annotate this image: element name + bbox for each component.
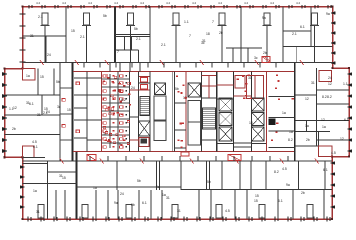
- elevator shaft E2: [155, 83, 166, 95]
- top band sub-room wall d: [310, 7, 312, 47]
- core red cells top right: [235, 76, 264, 99]
- left wing wall y134: [5, 134, 61, 136]
- column KB6 (bottom band): [259, 205, 265, 219]
- small cells corridor top strip: [110, 63, 140, 72]
- right wing wall y145: [295, 145, 333, 147]
- core top red wall: [73, 71, 294, 73]
- svg-text:2.1: 2.1: [38, 15, 43, 19]
- top band sub-wall mid2: [115, 49, 139, 51]
- right wing red room bottom: [319, 146, 333, 157]
- svg-text:3c: 3c: [103, 132, 107, 136]
- svg-text:12: 12: [13, 106, 17, 110]
- red symbol bottom corridor 1: [87, 155, 96, 161]
- svg-text:1a: 1a: [26, 74, 30, 78]
- dimension ticks upper-left wall: [20, 14, 26, 62]
- column KB3 (bottom band): [126, 205, 132, 219]
- svg-text:4.2: 4.2: [270, 1, 275, 5]
- svg-text:2b: 2b: [12, 127, 16, 131]
- svg-text:2b: 2b: [263, 51, 267, 55]
- column KB2 (bottom band): [82, 205, 88, 219]
- cell below E1: [139, 138, 149, 147]
- svg-text:4.5: 4.5: [225, 209, 230, 213]
- core wall x266: [266, 72, 268, 152]
- svg-text:2.1: 2.1: [161, 43, 166, 47]
- left wing partial vertical 2: [37, 69, 39, 96]
- bottom band upper partition V1: [116, 161, 118, 190]
- svg-text:31: 31: [30, 34, 34, 38]
- red hatch symbol top band: [262, 57, 270, 63]
- bottom band upper partition V4: [180, 161, 182, 190]
- svg-text:7: 7: [212, 20, 214, 24]
- wall below right bank: [252, 143, 267, 145]
- svg-text:2.1: 2.1: [292, 32, 297, 36]
- svg-text:5b: 5b: [175, 87, 179, 91]
- dimension arrows upper-right wall: [331, 11, 336, 65]
- svg-text:1a: 1a: [305, 124, 309, 128]
- left wing red room top: [23, 69, 36, 81]
- right wing wall y104: [316, 103, 349, 105]
- bottom band upper partition V12: [324, 161, 326, 190]
- svg-text:5b: 5b: [137, 179, 141, 183]
- top band sub-wall right2: [283, 46, 333, 48]
- bottom band thick wall: [76, 152, 78, 219]
- svg-text:15: 15: [255, 194, 259, 198]
- svg-text:15: 15: [67, 108, 71, 112]
- top band sub-room wall e: [232, 48, 234, 63]
- svg-text:2.1: 2.1: [80, 35, 85, 39]
- left wing partial vertical 3: [53, 69, 55, 96]
- core WC cell column C: [102, 72, 119, 152]
- svg-text:7: 7: [117, 50, 119, 54]
- svg-text:2.1: 2.1: [43, 111, 48, 115]
- svg-text:24: 24: [328, 76, 332, 80]
- svg-text:24: 24: [47, 53, 51, 57]
- svg-text:4.2: 4.2: [296, 1, 301, 5]
- core tall cell column B: [87, 72, 102, 152]
- svg-text:2b: 2b: [219, 31, 223, 35]
- bottom band upper partition V2: [156, 161, 158, 190]
- svg-text:4.2: 4.2: [192, 1, 197, 5]
- svg-text:1a: 1a: [33, 189, 37, 193]
- bottom band upper partition V6: [209, 161, 211, 190]
- column K6 (top band): [263, 13, 272, 63]
- svg-text:1a: 1a: [282, 111, 286, 115]
- core right wall: [294, 63, 296, 162]
- dark duct element: [269, 119, 276, 126]
- top band partition V1: [65, 7, 67, 63]
- column K1 (top band): [41, 13, 50, 63]
- bottom band upper partition V5: [206, 161, 208, 190]
- svg-text:6.1: 6.1: [323, 168, 328, 172]
- column K2 (top band): [82, 13, 91, 63]
- svg-text:31: 31: [59, 174, 63, 178]
- top band partition V5 (thick): [114, 7, 116, 63]
- svg-text:15: 15: [254, 199, 258, 203]
- staircase ST2: [203, 108, 216, 129]
- svg-text:4.2: 4.2: [140, 1, 145, 5]
- dimension ticks top wall: [29, 5, 331, 9]
- left wing wall y95: [5, 94, 61, 96]
- svg-text:1a: 1a: [289, 130, 293, 134]
- core wall x202: [201, 72, 203, 152]
- svg-text:18: 18: [206, 32, 210, 36]
- core bottom red wall: [73, 151, 294, 153]
- dimension ticks left wing wall: [2, 72, 8, 153]
- column K7 (top band): [310, 13, 319, 63]
- svg-text:24: 24: [120, 192, 124, 196]
- right wing vertical 4: [318, 132, 320, 147]
- bottom band upper partition V9: [250, 161, 252, 190]
- svg-text:9a: 9a: [326, 12, 330, 16]
- staircase ST1: [140, 97, 150, 116]
- column K5 (top band): [218, 13, 227, 63]
- svg-text:24: 24: [131, 86, 135, 90]
- wall below left bank: [217, 143, 234, 145]
- svg-text:6.1: 6.1: [142, 201, 147, 205]
- svg-text:4.2: 4.2: [218, 1, 223, 5]
- svg-text:5b: 5b: [103, 14, 107, 18]
- svg-text:1a: 1a: [322, 125, 326, 129]
- svg-text:8.2: 8.2: [274, 170, 279, 174]
- svg-text:4.5: 4.5: [331, 151, 336, 155]
- svg-text:4.5: 4.5: [282, 167, 287, 171]
- svg-text:3c: 3c: [57, 105, 61, 109]
- core cells above stair2: [202, 76, 217, 99]
- elevator shaft E9: [252, 127, 265, 141]
- bottom band upper partition V7: [221, 161, 223, 190]
- core wall above E4: [217, 72, 234, 152]
- top band sub-wall right: [283, 30, 311, 32]
- column K3 (top band): [126, 13, 135, 63]
- svg-text:12: 12: [321, 118, 325, 122]
- left wing partial vertical: [41, 95, 43, 115]
- core left wall: [72, 63, 74, 162]
- red plumbing fixture marks: [102, 74, 293, 148]
- svg-text:31: 31: [311, 81, 315, 85]
- core corridor column 2: [129, 72, 138, 152]
- top band partition V2: [149, 7, 151, 63]
- core wall x168 (double): [172, 72, 174, 152]
- svg-text:18: 18: [249, 121, 253, 125]
- column KB7 (bottom band): [307, 205, 313, 219]
- svg-text:15: 15: [71, 29, 75, 33]
- svg-text:1.1: 1.1: [343, 82, 348, 86]
- right wing wall y120: [295, 119, 350, 121]
- top band sub-room wall b: [131, 36, 133, 50]
- top band sub-room wall f: [247, 48, 249, 63]
- svg-text:31: 31: [37, 113, 41, 117]
- left wing red room bottom: [23, 146, 35, 157]
- core wall x217: [216, 72, 218, 152]
- right wing vertical 2: [306, 120, 308, 131]
- svg-text:8.2: 8.2: [322, 95, 327, 99]
- right wing wall y90: [317, 89, 350, 91]
- svg-text:4.2: 4.2: [114, 1, 119, 5]
- svg-text:4.2: 4.2: [62, 1, 67, 5]
- dimension arrows lower-right wall: [330, 161, 335, 209]
- bottom band upper partition V11: [298, 161, 300, 190]
- svg-text:6.1: 6.1: [278, 199, 283, 203]
- elevator shaft E8: [252, 113, 265, 126]
- svg-text:5b: 5b: [56, 80, 60, 84]
- core tall cell column A: [74, 72, 87, 152]
- dimension numbers top: [36, 1, 301, 5]
- core cells above stair1: [139, 72, 150, 152]
- bottom band sub-wall left3: [23, 163, 48, 165]
- bottom band upper partition V8: [239, 161, 241, 190]
- dimension arrows right wing wall: [347, 72, 352, 153]
- svg-text:6.1: 6.1: [344, 118, 349, 122]
- core right rooms walls: [268, 97, 294, 148]
- column KB5 (bottom band): [216, 205, 222, 219]
- bottom band top wall: [23, 160, 333, 162]
- svg-text:4.2: 4.2: [166, 1, 171, 5]
- svg-text:1.1: 1.1: [184, 20, 189, 24]
- right wing vertical: [316, 68, 318, 146]
- svg-text:6.1: 6.1: [300, 25, 305, 29]
- core cells below stair2: [202, 139, 217, 141]
- svg-text:31: 31: [248, 76, 252, 80]
- shaft rooms below E3: [188, 101, 201, 146]
- elevator shaft E4: [219, 98, 232, 111]
- svg-text:8.2: 8.2: [288, 138, 293, 142]
- svg-text:5b: 5b: [131, 203, 135, 207]
- right wing wall y131: [295, 131, 331, 133]
- svg-text:12: 12: [340, 137, 344, 141]
- top band sub-room wall a: [124, 36, 126, 50]
- svg-text:15: 15: [40, 75, 44, 79]
- svg-text:3c: 3c: [254, 56, 258, 60]
- elevator shaft E1: [139, 121, 151, 136]
- red door swing marks: [40, 60, 319, 164]
- svg-text:2b: 2b: [301, 191, 305, 195]
- column KB4 (bottom band): [172, 205, 178, 219]
- top band partition V4: [282, 7, 284, 63]
- right wing red room top: [319, 71, 332, 82]
- svg-text:31: 31: [177, 209, 181, 213]
- svg-text:9a: 9a: [262, 16, 266, 20]
- bottom band sub-wall right: [240, 189, 332, 191]
- svg-text:4.2: 4.2: [88, 1, 93, 5]
- svg-text:2.1: 2.1: [136, 37, 141, 41]
- svg-text:4.2: 4.2: [244, 1, 249, 5]
- svg-text:7: 7: [189, 34, 191, 38]
- door jambs corridor: [84, 63, 288, 162]
- svg-text:31: 31: [166, 196, 170, 200]
- left wing wall y115: [5, 114, 61, 116]
- elevator shaft E7: [252, 98, 265, 111]
- bottom band upper partition V3: [159, 161, 161, 190]
- elevator shaft E6: [219, 127, 232, 141]
- top band sub-wall left: [23, 35, 67, 37]
- bottom band upper partition V10: [265, 161, 267, 190]
- bottom band sub-wall mid: [77, 187, 241, 190]
- svg-text:4.5: 4.5: [32, 140, 37, 144]
- svg-text:9a: 9a: [114, 201, 118, 205]
- svg-text:6.1: 6.1: [33, 145, 38, 149]
- left wing bottom step wall: [23, 156, 46, 158]
- right wing wall y140: [316, 139, 349, 141]
- svg-text:9a: 9a: [156, 185, 160, 189]
- dimension ticks bottom wall: [28, 217, 330, 222]
- svg-text:12: 12: [328, 82, 332, 86]
- bottom band sub-wall left: [23, 183, 77, 185]
- svg-text:6.1: 6.1: [29, 102, 34, 106]
- top band sub-room wall g: [296, 47, 298, 63]
- shaft rooms below E2: [154, 96, 166, 141]
- svg-text:2b: 2b: [306, 138, 310, 142]
- svg-text:12: 12: [305, 97, 309, 101]
- core WC cell column D: [118, 72, 129, 152]
- top band sub-wall right3: [226, 47, 262, 49]
- svg-text:8.2: 8.2: [327, 95, 332, 99]
- red symbol bottom corridor 3: [228, 155, 241, 161]
- svg-text:9a: 9a: [286, 183, 290, 187]
- svg-text:1a: 1a: [93, 186, 97, 190]
- svg-text:31: 31: [202, 39, 206, 43]
- core lobby column: [175, 72, 186, 152]
- bottom band partition x47: [47, 161, 49, 219]
- elevator lobby right: [234, 72, 252, 152]
- column KB1 (bottom band): [38, 205, 44, 219]
- svg-text:1a: 1a: [162, 193, 166, 197]
- top band sub-room wall c: [138, 50, 140, 63]
- svg-text:31: 31: [36, 210, 40, 214]
- svg-text:5b: 5b: [207, 180, 211, 184]
- svg-text:5b: 5b: [134, 27, 138, 31]
- dimension ticks lower-left wall: [20, 165, 25, 209]
- top band sub-wall mid: [115, 34, 150, 36]
- bottom band lower partitions: [56, 190, 324, 219]
- red symbol bottom corridor 2: [181, 152, 189, 156]
- elevator shaft E3: [188, 83, 201, 97]
- top band corridor wall: [23, 62, 333, 64]
- left cell column (wing-core): [60, 63, 73, 162]
- top band sub-wall left vertical: [45, 36, 47, 63]
- right wing wall y94: [295, 94, 317, 96]
- elevator shaft E5: [219, 113, 232, 126]
- column K4 (top band): [172, 13, 181, 63]
- top band partition V3: [240, 7, 242, 63]
- bottom band sub-wall left2: [48, 171, 77, 173]
- svg-text:4.2: 4.2: [36, 1, 41, 5]
